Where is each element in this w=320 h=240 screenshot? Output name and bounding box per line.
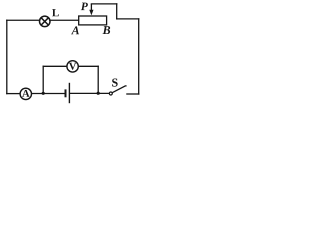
wire left vertical	[6, 20, 8, 93]
wire voltmeter branch left vertical	[42, 66, 44, 93]
label L	[52, 9, 59, 16]
label P	[81, 3, 88, 11]
ammeter letter A	[22, 90, 29, 97]
switch pivot contact	[109, 92, 112, 95]
junction dot left (voltmeter tap)	[42, 92, 45, 95]
wire voltmeter branch left horizontal	[43, 65, 67, 67]
junction dot right (voltmeter tap)	[97, 92, 100, 95]
voltmeter V	[67, 61, 78, 72]
wire ammeter to battery	[31, 93, 64, 95]
battery long plate (positive)	[68, 83, 70, 103]
wire step top-right horizontal	[117, 18, 139, 20]
rheostat P (resistor box)	[79, 16, 107, 25]
wire voltmeter branch right horizontal	[78, 65, 98, 67]
wiper stem	[90, 4, 92, 10]
wire wiper to top-right	[91, 3, 116, 5]
lamp L	[40, 16, 51, 27]
wire switch to bottom-right corner	[127, 93, 139, 95]
wire lamp to rheostat	[50, 19, 79, 21]
wire voltmeter branch right vertical	[97, 66, 99, 93]
label A (rheostat terminal)	[71, 26, 79, 34]
voltmeter letter V	[69, 63, 76, 70]
wiper arrowhead	[89, 10, 93, 16]
label B (rheostat terminal)	[102, 26, 110, 34]
wire bottom-left to ammeter	[7, 93, 20, 95]
label S	[112, 79, 118, 87]
wire step top-right vertical	[116, 4, 118, 19]
switch lever	[112, 86, 126, 93]
ammeter A	[20, 88, 31, 99]
wire battery to switch	[70, 92, 109, 94]
battery short plate (negative)	[65, 89, 67, 97]
wire top-left horizontal	[7, 19, 40, 21]
wire right vertical	[138, 19, 140, 94]
